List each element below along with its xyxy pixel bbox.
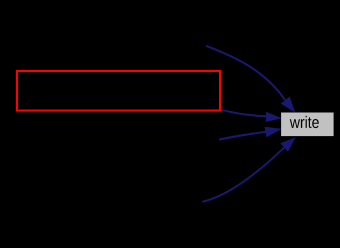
wire: edge 4 (bottom curve into write) <box>202 147 284 202</box>
arrowhead 4 <box>281 138 294 151</box>
arrowhead 1 <box>282 97 295 111</box>
arrowhead 3 <box>265 127 280 136</box>
wire: edge 1 (top curve into write) <box>206 46 285 100</box>
wire: edge 2 (from red node corner into write) <box>221 110 267 117</box>
arrowhead 2 <box>266 113 280 122</box>
node: write (current function) <box>281 113 334 137</box>
label: write <box>290 116 319 128</box>
node: truncated caller (red outline, empty) <box>17 71 220 111</box>
wire: edge 3 (lower straight line into write) <box>219 132 266 140</box>
